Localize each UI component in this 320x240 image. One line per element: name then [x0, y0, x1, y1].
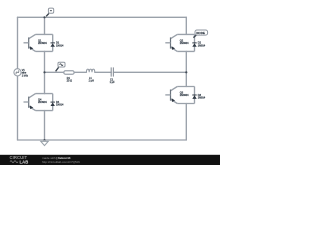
- diode D2 (antiparallel of Q2): [192, 34, 205, 51]
- wire bottom rail: [18, 139, 187, 141]
- transistor Q3 (bottom-right, 2N3904 with diode): [165, 87, 194, 104]
- node junction load-left: [43, 71, 45, 73]
- wire load L to C: [95, 71, 111, 73]
- flag probe node B (load): [56, 62, 65, 71]
- wire right leg middle: [185, 51, 187, 86]
- wire left side upper: [17, 17, 19, 68]
- diode D3 (antiparallel of Q3): [192, 87, 205, 104]
- diode D1 (antiparallel of Q1): [51, 34, 64, 51]
- wire load left: [45, 71, 64, 73]
- wire right leg upper: [185, 17, 187, 34]
- ground: [41, 140, 48, 146]
- transistor Q2 (top-right, 2N3904 with diode): [165, 34, 194, 51]
- svg-text:1N914: 1N914: [56, 44, 64, 47]
- flag NODE (top-right): [193, 30, 207, 38]
- diode D4 (antiparallel of Q4): [51, 94, 64, 111]
- node junction load-right: [185, 71, 187, 73]
- wire left leg lower: [44, 111, 46, 140]
- svg-text:1N914: 1N914: [56, 104, 64, 107]
- svg-text:1N914: 1N914: [198, 96, 206, 99]
- svg-text:20 Ω: 20 Ω: [67, 80, 72, 83]
- svg-text:2N3904: 2N3904: [180, 42, 189, 45]
- svg-text:NODE: NODE: [196, 31, 205, 35]
- svg-text:http://circuitlab.com/c/7Q5z6: http://circuitlab.com/c/7Q5z6: [42, 160, 80, 164]
- wire right leg lower: [185, 104, 187, 141]
- svg-text:2N3904: 2N3904: [180, 94, 189, 97]
- capacitor C1: [110, 67, 116, 84]
- node junction ground: [44, 139, 46, 141]
- svg-text:1 μH: 1 μH: [89, 80, 95, 83]
- footer bar: [0, 155, 220, 165]
- inductor L1: [86, 69, 94, 82]
- node junction top-left: [43, 16, 45, 18]
- resistor R1: [64, 71, 74, 83]
- wire left leg middle: [44, 51, 46, 93]
- transistor Q4 (bottom-left, 2N3904 with diode): [24, 94, 53, 111]
- wire left side lower: [17, 76, 19, 140]
- wire top rail: [18, 16, 187, 18]
- wire left leg upper: [44, 17, 46, 34]
- svg-text:1 μF: 1 μF: [110, 81, 116, 84]
- svg-text:1N914: 1N914: [198, 44, 206, 47]
- flag probe node A (top-left): [46, 8, 54, 16]
- voltage source V1: [14, 69, 29, 78]
- wire load C to right leg: [113, 71, 186, 73]
- svg-text:2N3904: 2N3904: [38, 101, 47, 104]
- svg-text:2N3904: 2N3904: [38, 42, 47, 45]
- transistor Q1 (top-left, 2N3904 with diode): [24, 34, 53, 51]
- svg-text:LAB: LAB: [20, 159, 29, 164]
- svg-text:1 kHz: 1 kHz: [22, 75, 29, 78]
- wire load R to L: [74, 71, 86, 73]
